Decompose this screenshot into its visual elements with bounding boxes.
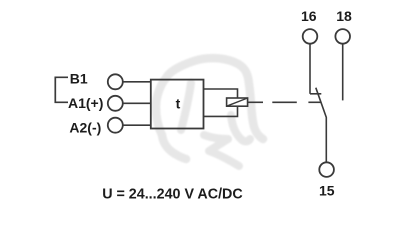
terminal circle 15 xyxy=(319,162,334,177)
terminal circle A1 xyxy=(108,96,123,111)
svg-text:16: 16 xyxy=(301,8,317,24)
contact 16 foot xyxy=(310,93,321,95)
terminal circle 18 xyxy=(335,29,350,44)
bracket B1-A1 xyxy=(55,77,68,102)
svg-text:U = 24...240 V AC/DC: U = 24...240 V AC/DC xyxy=(102,187,243,203)
timer box t xyxy=(151,80,204,129)
svg-text:15: 15 xyxy=(319,182,335,198)
watermark glyph stroke 1 xyxy=(181,83,191,130)
mechanical link dash 1 xyxy=(272,101,297,103)
svg-text:B1: B1 xyxy=(70,71,88,87)
terminal circle 16 xyxy=(303,29,318,44)
wire terminal 16 xyxy=(309,44,311,94)
wire terminal 18 xyxy=(342,44,344,101)
mechanical link solid segment xyxy=(248,101,263,103)
wire box to coil top xyxy=(204,89,238,98)
svg-text:t: t xyxy=(176,95,181,111)
wire A2 to box xyxy=(123,124,151,126)
mechanical link dash 2 xyxy=(308,101,321,103)
wire A1 to box xyxy=(123,102,151,104)
watermark glyph hook xyxy=(231,115,250,141)
coil diagonal xyxy=(227,98,248,106)
svg-text:A1(+): A1(+) xyxy=(68,95,103,111)
relay coil K1 xyxy=(227,98,248,106)
svg-text:A2(-): A2(-) xyxy=(69,120,101,136)
wire B1 to box xyxy=(123,81,151,83)
watermark glyph zigzag xyxy=(204,135,239,166)
wire coil bottom to box xyxy=(204,106,238,116)
watermark logo outline xyxy=(156,58,263,166)
svg-text:18: 18 xyxy=(336,8,352,24)
contact blade xyxy=(316,88,327,163)
terminal circle A2 xyxy=(108,118,123,133)
terminal circle B1 xyxy=(108,74,123,89)
